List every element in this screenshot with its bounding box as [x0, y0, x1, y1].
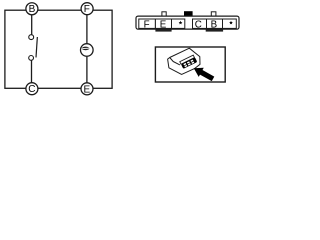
svg-text:B: B — [211, 19, 218, 30]
svg-text:E: E — [160, 19, 167, 30]
svg-text:F: F — [144, 19, 150, 30]
svg-text:C: C — [195, 19, 202, 30]
svg-text:E: E — [83, 84, 90, 95]
svg-text:F: F — [84, 4, 90, 15]
svg-text:B: B — [29, 4, 36, 15]
svg-text:C: C — [28, 84, 35, 95]
